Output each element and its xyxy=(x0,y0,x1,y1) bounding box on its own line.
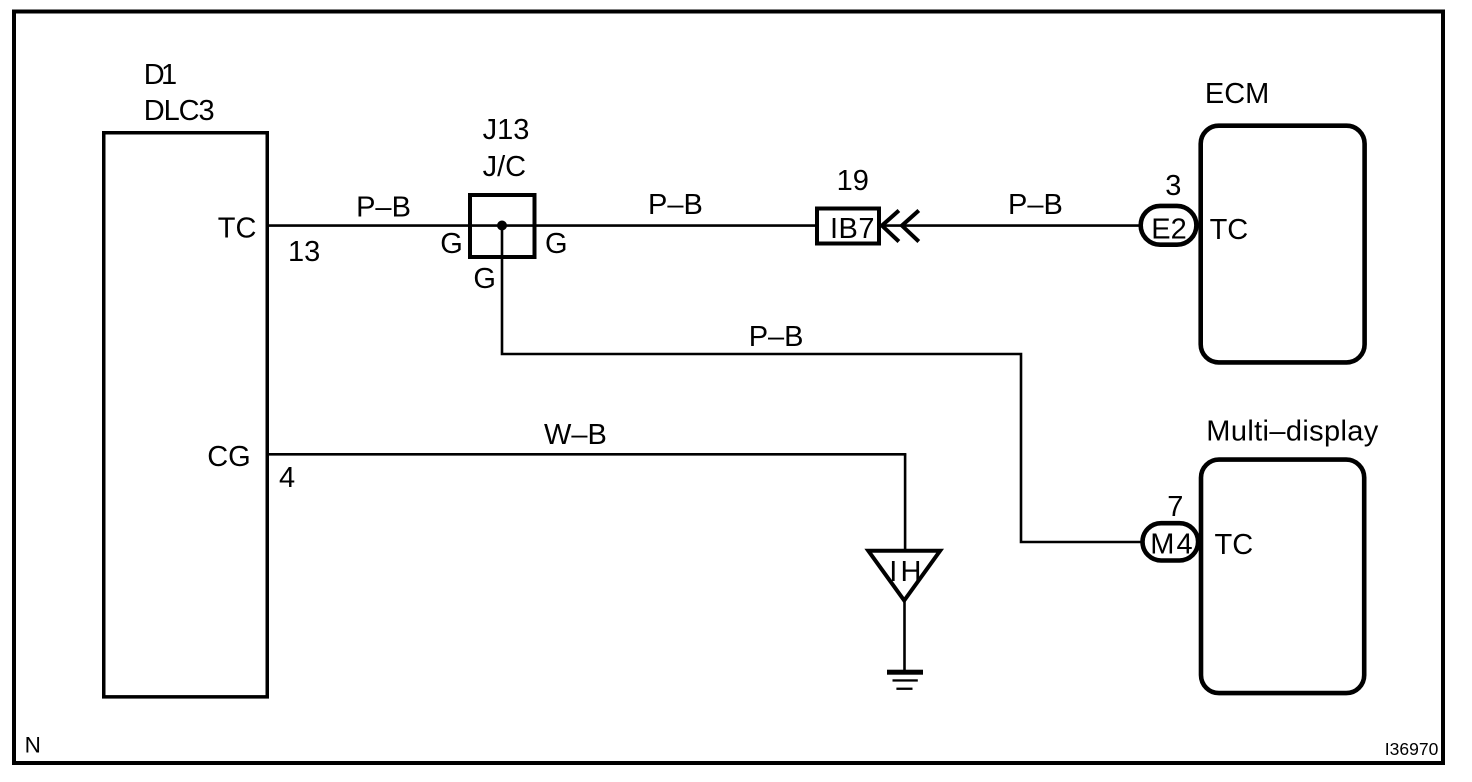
svg-text:TC: TC xyxy=(1210,214,1249,246)
svg-text:P–B: P–B xyxy=(1008,189,1063,221)
svg-text:N: N xyxy=(25,732,41,757)
svg-text:TC: TC xyxy=(1215,529,1254,561)
svg-text:IH: IH xyxy=(889,556,921,588)
svg-text:DLC3: DLC3 xyxy=(144,95,215,127)
svg-text:4: 4 xyxy=(279,462,295,494)
svg-text:TC: TC xyxy=(218,212,257,244)
svg-text:D1: D1 xyxy=(144,59,178,91)
svg-text:G: G xyxy=(440,228,463,260)
svg-text:IB7: IB7 xyxy=(830,213,875,245)
svg-text:7: 7 xyxy=(1167,491,1183,523)
svg-text:G: G xyxy=(473,263,496,295)
svg-text:Multi–display: Multi–display xyxy=(1206,416,1379,448)
svg-text:ECM: ECM xyxy=(1205,78,1269,110)
svg-text:19: 19 xyxy=(837,165,869,197)
svg-text:W–B: W–B xyxy=(544,419,607,451)
svg-text:M4: M4 xyxy=(1150,529,1192,561)
svg-text:P–B: P–B xyxy=(648,189,703,221)
svg-text:13: 13 xyxy=(288,236,320,268)
svg-text:I36970: I36970 xyxy=(1385,739,1439,759)
svg-text:E2: E2 xyxy=(1151,214,1186,246)
svg-text:3: 3 xyxy=(1165,170,1181,202)
svg-text:J/C: J/C xyxy=(483,151,526,183)
svg-text:G: G xyxy=(545,228,568,260)
svg-text:P–B: P–B xyxy=(749,321,804,353)
svg-text:P–B: P–B xyxy=(356,191,411,223)
svg-text:J13: J13 xyxy=(483,114,530,146)
svg-text:CG: CG xyxy=(207,441,251,473)
